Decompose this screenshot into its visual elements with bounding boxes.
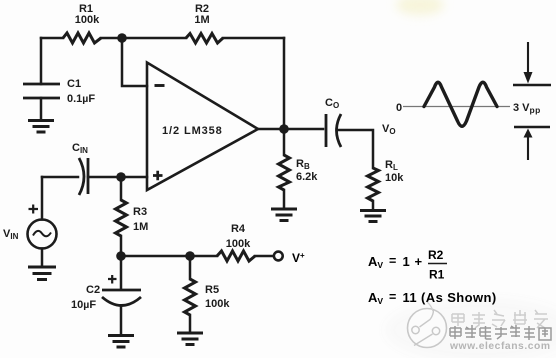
svg-text:10k: 10k [385, 172, 404, 184]
node junction Cin-R3 [116, 172, 126, 182]
ground below C2 [108, 336, 134, 348]
plus sign at C2 [108, 275, 117, 284]
svg-text:R4: R4 [231, 223, 246, 235]
capacitor CO [326, 114, 341, 147]
svg-text:100k: 100k [226, 238, 251, 250]
node junction R3-C2 [116, 251, 126, 261]
terminal V+ open circle [274, 252, 283, 261]
svg-text:10µF: 10µF [71, 299, 96, 311]
svg-text:0.1µF: 0.1µF [67, 93, 95, 105]
resistor R5 [185, 279, 196, 315]
node junction R5-R4 [185, 251, 195, 261]
ground below C1 [28, 121, 54, 133]
wire right vertical down to output node [283, 38, 286, 129]
wire node row to R5 node [121, 255, 190, 258]
scan texture wash behind watermark [385, 298, 556, 358]
svg-text:6.2k: 6.2k [296, 171, 318, 183]
node junction R1-R2 [117, 33, 127, 43]
dimension arrow top [527, 42, 529, 73]
wire Vin source to ground [41, 249, 44, 267]
resistor R1 [63, 33, 101, 43]
svg-text:=: = [389, 254, 396, 268]
capacitor C2 [102, 290, 141, 306]
sine symbol inside VIN [33, 231, 51, 236]
wire top-left to R1 [41, 37, 63, 40]
svg-text:=: = [389, 290, 396, 304]
wire Vin top to Cin [42, 176, 78, 179]
resistor RB [279, 155, 290, 190]
wire C1 branch down [40, 38, 43, 84]
wire RL bottom stem [372, 201, 375, 209]
watermark text row1 glyphs [452, 310, 548, 328]
wire output node down to RB [283, 129, 286, 155]
watermark text row2 glyphs [450, 325, 551, 340]
wire Cin to noninverting input [88, 176, 147, 179]
ground below RB [271, 209, 297, 221]
plus sign at Vin source [29, 205, 39, 214]
wire R2 to right corner [223, 37, 284, 40]
wire R5 node to R4 [190, 255, 217, 258]
svg-text:100k: 100k [205, 298, 230, 310]
svg-text:C1: C1 [67, 78, 81, 90]
waveform sine [424, 82, 497, 126]
ground below R5 [177, 333, 203, 345]
svg-text:+: + [415, 254, 423, 269]
resistor RL [368, 168, 379, 201]
wire R4 to V+ terminal [255, 255, 274, 258]
wire C1 bottom stem [40, 98, 43, 120]
wire R3 bottom to node [120, 236, 123, 256]
wire feedback drop to inverting input [122, 38, 147, 86]
svg-text:0: 0 [396, 102, 402, 114]
wire C2 bottom stem [120, 306, 123, 336]
wire R3 top stem [120, 177, 123, 200]
capacitor C1 [23, 84, 60, 98]
wire C2 top stem [120, 256, 123, 289]
svg-text:1M: 1M [133, 221, 148, 233]
capacitor CIN [79, 158, 88, 195]
wire output to Co [258, 128, 323, 131]
op-amp U1 triangle [147, 63, 258, 191]
svg-text:www.elecfans.com: www.elecfans.com [449, 341, 551, 352]
svg-text:R1: R1 [429, 268, 445, 282]
wire Co to Vo corner down to RL [338, 130, 373, 168]
wire R1 to R2 via node [101, 37, 186, 40]
resistor R2 [186, 34, 223, 44]
svg-text:R5: R5 [205, 284, 219, 296]
svg-text:C2: C2 [86, 284, 100, 296]
resistor R4 [217, 251, 255, 261]
waveform axis [403, 106, 510, 108]
svg-text:R2: R2 [428, 248, 444, 262]
ground below RL [360, 211, 386, 222]
wire RB bottom stem [283, 190, 286, 208]
ground below VIN [28, 267, 56, 280]
svg-text:100k: 100k [75, 14, 100, 26]
node junction output [279, 124, 289, 134]
op-amp inverting input minus sign [155, 84, 165, 87]
wire R5 top stem [189, 256, 192, 279]
svg-text:1: 1 [403, 254, 410, 269]
wire Vin vertical [41, 177, 44, 220]
resistor R3 [116, 200, 127, 236]
dimension arrow bottom [514, 126, 550, 129]
op-amp noninverting input plus sign [153, 171, 163, 180]
svg-text:1/2 LM358: 1/2 LM358 [162, 125, 223, 137]
svg-text:R3: R3 [133, 206, 147, 218]
svg-text:1M: 1M [194, 14, 209, 26]
watermark logo circle [408, 302, 447, 348]
source VIN circle [28, 220, 57, 249]
wire R5 bottom stem [189, 315, 192, 332]
